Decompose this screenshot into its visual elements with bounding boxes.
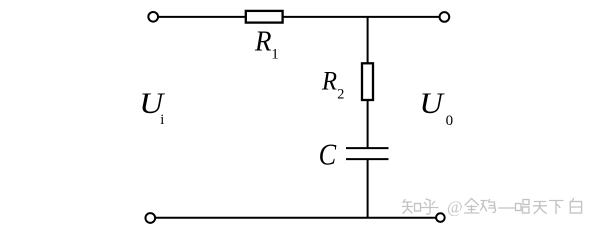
svg-text:2: 2 bbox=[337, 87, 344, 103]
svg-text:0: 0 bbox=[446, 113, 454, 129]
svg-text:@: @ bbox=[447, 198, 463, 217]
svg-text:R: R bbox=[254, 26, 271, 57]
svg-text:i: i bbox=[160, 112, 164, 128]
svg-text:1: 1 bbox=[271, 46, 279, 62]
svg-text:R: R bbox=[321, 65, 337, 95]
svg-text:C: C bbox=[319, 137, 337, 171]
svg-text:U: U bbox=[419, 87, 445, 120]
